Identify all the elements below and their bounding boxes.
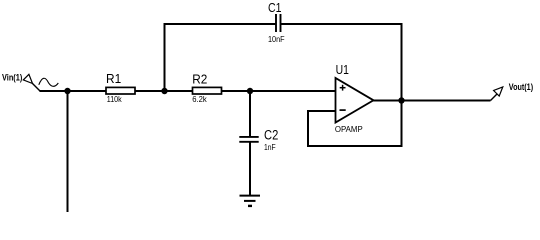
wire feedback riser from node A xyxy=(164,23,166,91)
wire C2 to ground xyxy=(249,142,251,196)
junction node A (R1/R2/C1) xyxy=(161,88,167,94)
wire source return (down to edge) xyxy=(67,91,69,212)
capacitor C1 xyxy=(276,14,281,32)
svg-text:R1: R1 xyxy=(106,71,121,86)
wire feedback left drop xyxy=(307,110,309,147)
wire feedback bottom xyxy=(307,145,403,147)
ground xyxy=(240,196,261,206)
svg-text:1nF: 1nF xyxy=(264,142,276,152)
capacitor C2 xyxy=(239,137,258,142)
svg-text:Vin(1): Vin(1) xyxy=(2,73,22,83)
port Vin(1) arrow xyxy=(23,74,40,91)
resistor R1 xyxy=(106,87,135,94)
svg-text:Vout(1): Vout(1) xyxy=(509,82,533,93)
svg-text:C2: C2 xyxy=(264,128,278,143)
wire inverting input pin xyxy=(308,110,336,112)
resistor R2 xyxy=(193,87,222,94)
svg-text:6.2k: 6.2k xyxy=(192,94,207,104)
wire node B down to C2 xyxy=(249,91,251,137)
junction input node xyxy=(64,88,70,94)
svg-text:OPAMP: OPAMP xyxy=(335,124,363,134)
svg-text:110k: 110k xyxy=(107,94,123,104)
svg-text:R2: R2 xyxy=(192,71,207,86)
wire top left to C1 xyxy=(164,23,277,25)
op-amp U1 xyxy=(336,78,374,123)
port Vout(1) arrow xyxy=(491,87,503,101)
svg-text:U1: U1 xyxy=(336,62,349,77)
sine source symbol xyxy=(39,78,59,86)
svg-text:C1: C1 xyxy=(268,0,282,15)
junction output node xyxy=(398,97,404,103)
wire top right from C1 xyxy=(281,23,403,25)
wire main input net y=91 xyxy=(40,90,336,92)
wire op-amp output xyxy=(371,100,491,102)
svg-text:10nF: 10nF xyxy=(268,34,285,44)
wire right side down to output node xyxy=(401,23,403,147)
junction node B (R2/C2/op-amp) xyxy=(247,88,253,94)
